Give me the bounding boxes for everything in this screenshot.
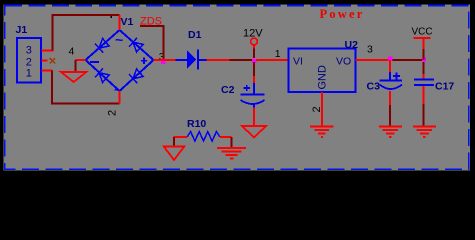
svg-text:V1: V1	[121, 16, 134, 28]
bridge diode top-right	[129, 38, 144, 53]
wire node 12V to C2	[253, 62, 255, 76]
U2 pin 2 wire to ground	[321, 92, 323, 126]
svg-text:C3: C3	[367, 81, 381, 93]
junction at C3	[388, 56, 392, 60]
wire C3 to ground	[389, 91, 391, 105]
ground under U2	[310, 126, 333, 137]
C2 plus mark	[244, 85, 251, 91]
capacitor C2	[253, 83, 255, 95]
ground under C3	[379, 127, 402, 137]
wire C2 to ground	[253, 108, 255, 127]
diode D1	[176, 59, 188, 61]
svg-text:C2: C2	[221, 84, 235, 96]
wire C17 to ground	[423, 86, 425, 104]
junction at VCC	[422, 57, 426, 61]
wire D1 to node 12V	[207, 59, 230, 61]
junction at bridge pin 3	[161, 60, 165, 64]
J1 pin 1	[42, 70, 53, 72]
svg-text:2: 2	[311, 106, 323, 112]
ground right of R10	[217, 148, 246, 158]
no-ERC cross on J1 pin 2	[50, 58, 56, 63]
pin number 1 tick	[111, 16, 113, 18]
wire VCC port to node	[423, 38, 425, 49]
junction at node 12V	[252, 59, 256, 63]
wire J1 pin 3 to bridge pin 1	[53, 15, 120, 51]
regulator U2 body	[289, 49, 356, 93]
svg-text:1: 1	[26, 67, 32, 79]
bridge diode top-left	[95, 38, 110, 53]
wire 12V port to node	[253, 45, 255, 49]
bridge minus mark	[90, 61, 99, 63]
wire net ZDS to node	[140, 26, 163, 60]
wire node to C3	[389, 60, 391, 72]
power port VCC bar	[414, 37, 431, 39]
ground under C17	[413, 127, 436, 137]
R10 pin 2	[220, 136, 232, 138]
C3 plus mark	[393, 73, 400, 80]
wire R10 pin 2 to ground	[231, 137, 233, 148]
svg-text:3: 3	[367, 43, 373, 55]
ground under C2	[242, 126, 266, 137]
svg-text:1: 1	[275, 48, 281, 60]
wire J1 pin 1 to bridge pin 2	[52, 71, 120, 104]
svg-text:4: 4	[69, 46, 75, 58]
svg-text:R10: R10	[187, 118, 206, 130]
R10 pin 1	[174, 136, 188, 138]
J1 pin 3	[42, 50, 54, 52]
connector J1 body	[17, 38, 41, 82]
wire node 12V to U2 pin 1	[256, 59, 289, 61]
bridge pin 1 (top)	[119, 15, 121, 30]
wire bridge pin 4 to ground	[75, 60, 77, 72]
svg-text:~: ~	[115, 32, 123, 48]
svg-text:VO: VO	[336, 56, 351, 68]
bridge diode bottom-left	[95, 68, 110, 83]
bridge rectifier V1 body	[86, 30, 154, 91]
svg-text:VCC: VCC	[412, 27, 433, 38]
wire U2 pin 3 to node VCC	[356, 59, 391, 61]
svg-text:J1: J1	[16, 24, 28, 36]
svg-text:U2: U2	[345, 39, 359, 51]
wire R10 pin 1 to ground	[173, 137, 175, 146]
capacitor C17	[414, 79, 434, 81]
ground left of R10	[164, 146, 185, 160]
ground at bridge pin 4	[61, 72, 86, 82]
resistor R10	[187, 132, 220, 141]
wire node VCC to C17	[423, 62, 425, 74]
svg-text:~: ~	[114, 82, 122, 98]
svg-text:VI: VI	[293, 56, 303, 68]
wire bridge pin 3 to D1	[154, 59, 176, 61]
svg-text:Power: Power	[320, 7, 365, 21]
bridge pin 2 (bottom)	[119, 91, 121, 104]
bridge pin 4 (left)	[76, 59, 86, 61]
J1 pin 2	[42, 60, 48, 62]
svg-text:D1: D1	[188, 29, 202, 41]
svg-text:GND: GND	[317, 65, 329, 90]
svg-text:2: 2	[106, 110, 118, 116]
svg-text:C17: C17	[435, 81, 454, 93]
bridge diode bottom-right	[129, 68, 144, 83]
svg-text:3: 3	[26, 44, 32, 56]
power port 12V circle	[251, 38, 258, 45]
bridge plus mark	[141, 58, 147, 64]
capacitor C3	[389, 72, 391, 80]
